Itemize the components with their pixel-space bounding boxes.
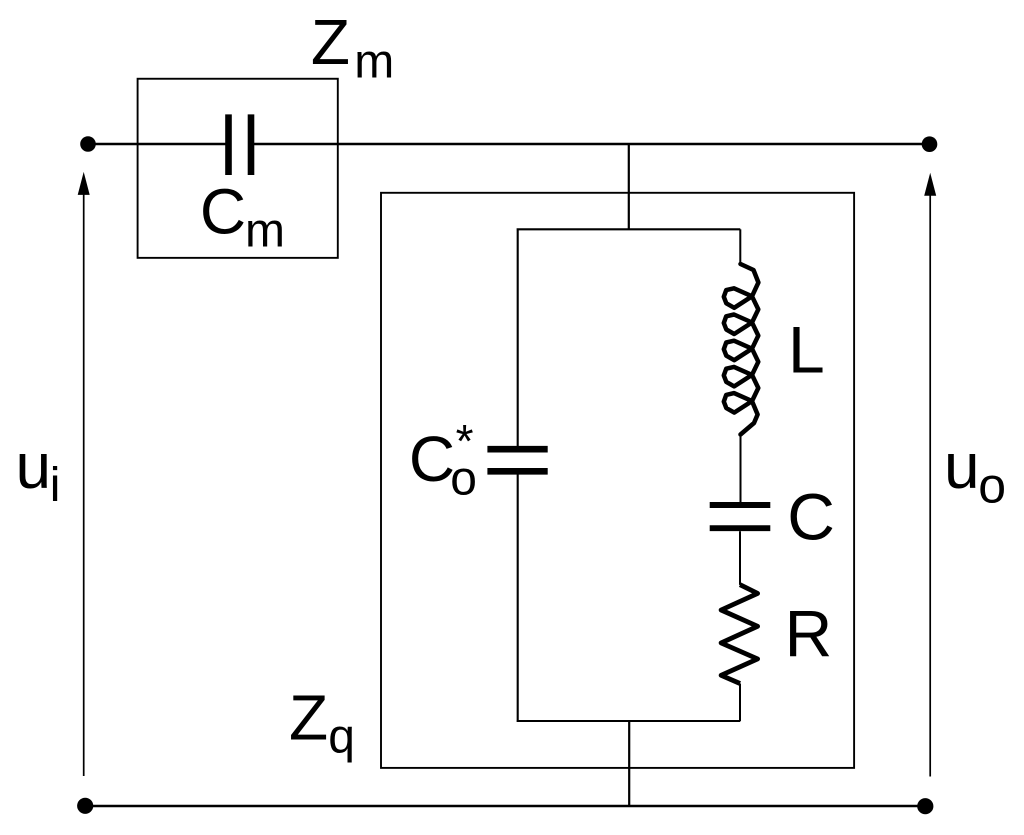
svg-text:q: q [328,710,355,763]
svg-text:C: C [409,423,455,495]
svg-text:C: C [787,479,835,553]
svg-text:m: m [245,205,285,258]
svg-text:R: R [785,597,833,671]
svg-text:m: m [354,35,394,88]
svg-text:i: i [50,459,61,512]
svg-text:Z: Z [289,681,328,753]
svg-text:L: L [788,313,825,387]
svg-text:o: o [978,457,1006,513]
svg-text:*: * [456,415,474,467]
svg-text:u: u [944,430,980,502]
svg-text:C: C [200,176,246,248]
svg-text:u: u [16,430,52,502]
svg-text:Z: Z [311,6,350,78]
